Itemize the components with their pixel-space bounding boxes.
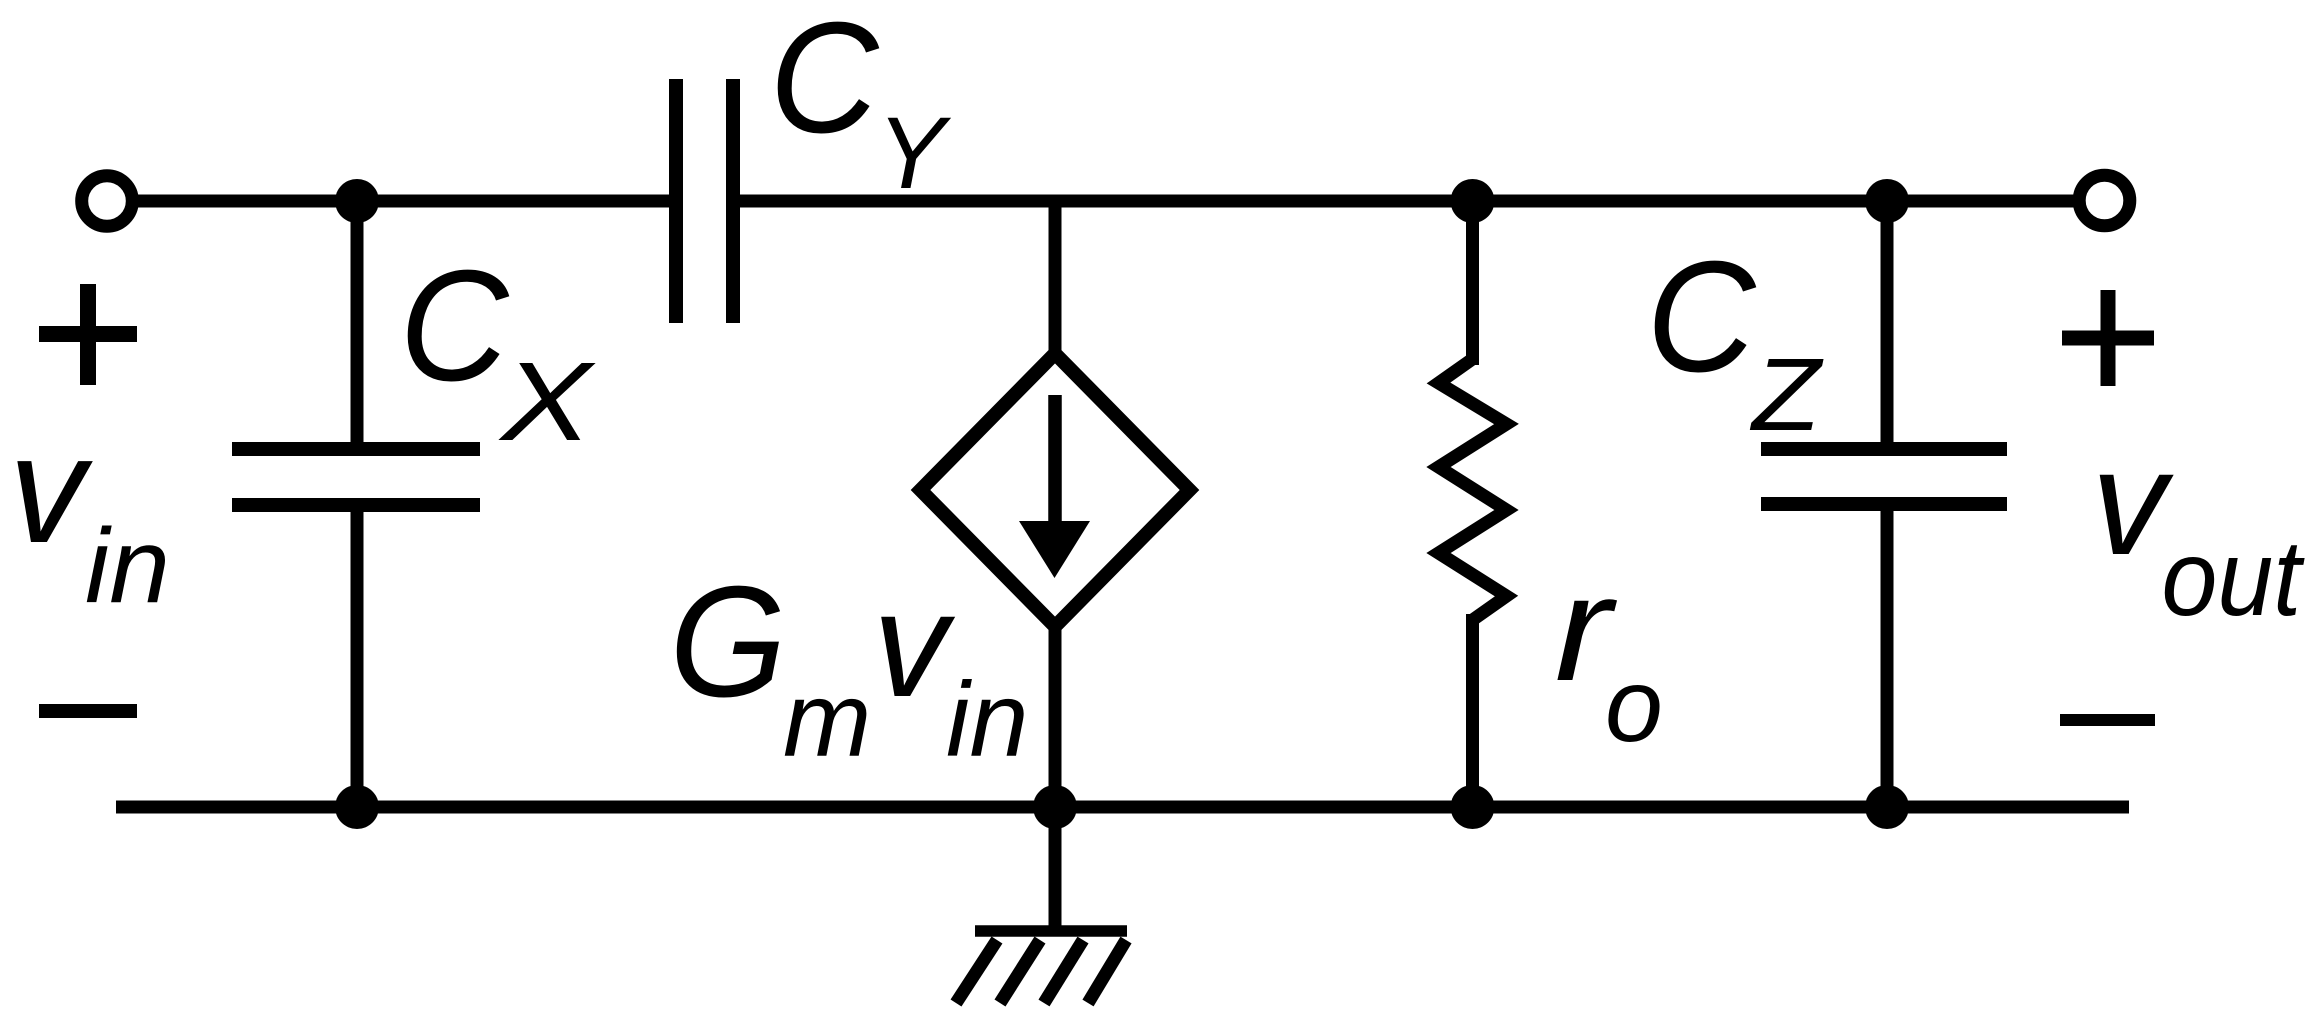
svg-text:o: o xyxy=(1605,648,1663,764)
svg-text:in: in xyxy=(85,507,170,625)
svg-text:out: out xyxy=(2162,519,2305,639)
svg-text:G: G xyxy=(669,553,786,730)
svg-text:C: C xyxy=(769,0,879,166)
svg-text:C: C xyxy=(1646,228,1756,405)
svg-text:X: X xyxy=(498,339,596,464)
svg-text:Z: Z xyxy=(1749,337,1824,452)
svg-text:C: C xyxy=(399,237,509,414)
svg-text:in: in xyxy=(946,661,1029,779)
svg-text:Y: Y xyxy=(877,96,952,210)
svg-text:v: v xyxy=(9,404,93,575)
svg-text:m: m xyxy=(783,661,871,779)
svg-text:v: v xyxy=(873,560,956,728)
